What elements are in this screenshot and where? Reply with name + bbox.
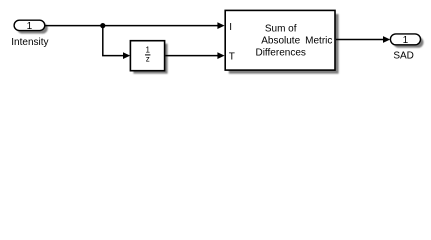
svg-text:1: 1 (27, 21, 33, 32)
svg-text:1: 1 (403, 35, 409, 46)
svg-text:SAD: SAD (393, 51, 414, 62)
svg-text:Metric: Metric (305, 35, 332, 46)
svg-text:Absolute: Absolute (261, 35, 300, 46)
svg-text:Intensity: Intensity (11, 37, 48, 48)
svg-text:z: z (146, 55, 150, 64)
svg-text:Sum of: Sum of (265, 24, 297, 35)
svg-text:Differences: Differences (255, 47, 305, 58)
svg-text:T: T (229, 51, 235, 62)
svg-text:1: 1 (145, 45, 150, 54)
svg-text:I: I (229, 22, 232, 33)
